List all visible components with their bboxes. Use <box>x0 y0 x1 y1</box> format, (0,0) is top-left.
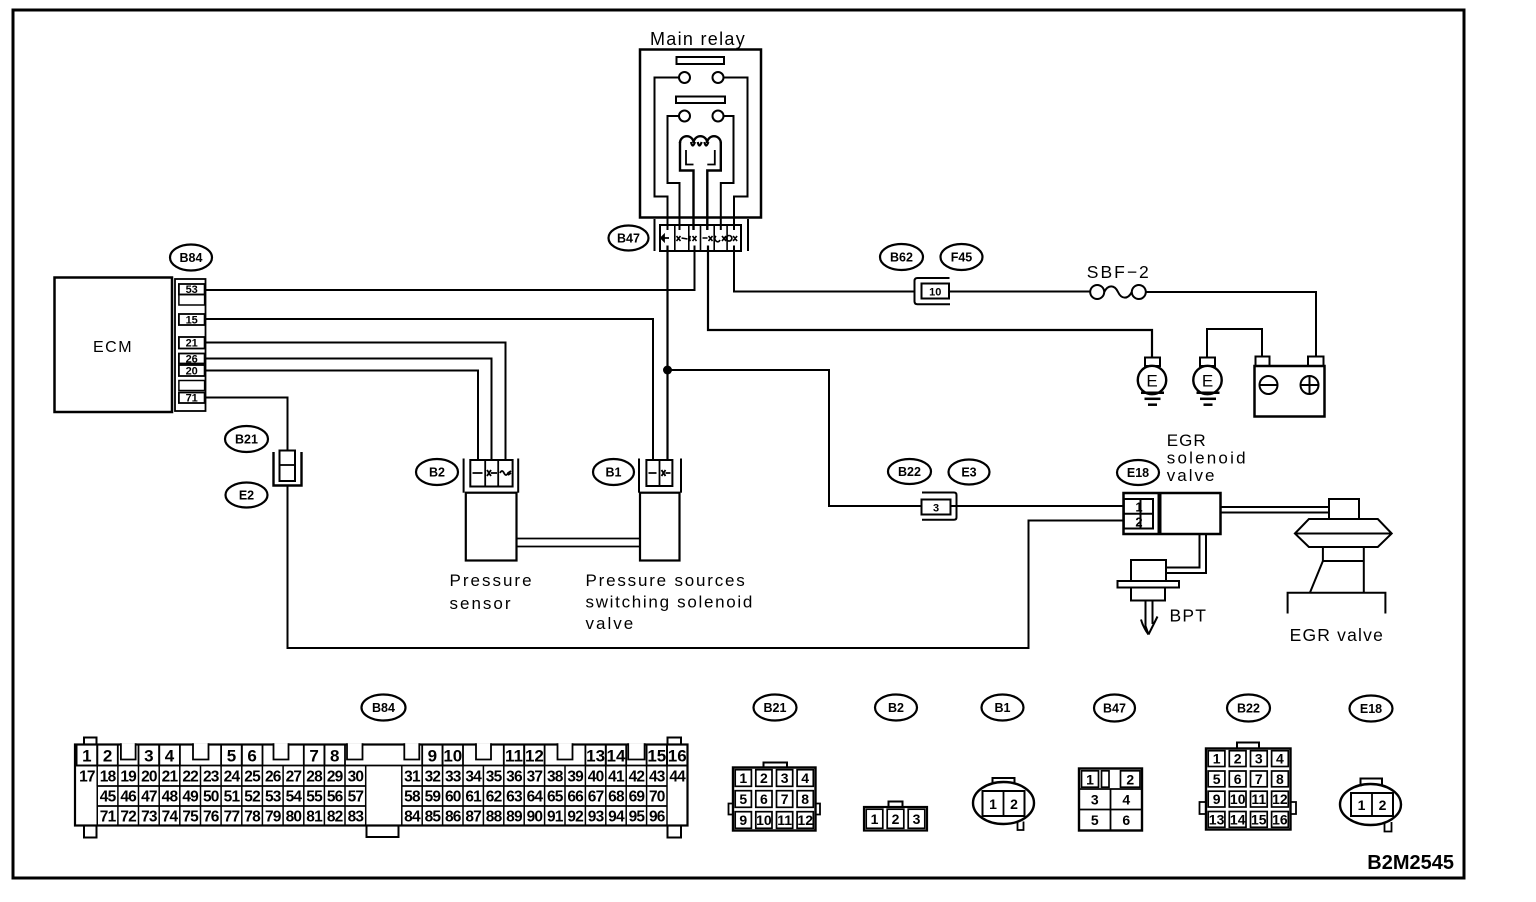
svg-text:6: 6 <box>1122 812 1130 828</box>
svg-text:EGR: EGR <box>1167 431 1207 450</box>
svg-text:75: 75 <box>182 809 199 826</box>
svg-text:B84: B84 <box>180 251 203 265</box>
svg-text:12: 12 <box>1272 791 1288 807</box>
svg-text:6: 6 <box>1234 771 1242 787</box>
svg-text:7: 7 <box>1255 771 1263 787</box>
ECM box <box>55 278 173 413</box>
connector B1 bracket <box>639 459 681 493</box>
svg-text:92: 92 <box>567 809 583 826</box>
svg-text:switching solenoid: switching solenoid <box>586 593 755 612</box>
connector label B2 <box>416 459 458 485</box>
svg-text:2: 2 <box>1234 751 1242 767</box>
svg-text:33: 33 <box>445 769 462 786</box>
svg-text:45: 45 <box>100 789 117 806</box>
svg-text:17: 17 <box>79 769 95 786</box>
svg-text:91: 91 <box>547 809 564 826</box>
connector B21/E2 symbol <box>274 451 302 486</box>
svg-text:84: 84 <box>404 809 421 826</box>
svg-text:8: 8 <box>330 747 339 766</box>
svg-text:1: 1 <box>82 747 91 766</box>
svg-text:73: 73 <box>141 809 158 826</box>
svg-text:EGR valve: EGR valve <box>1290 625 1384 645</box>
svg-text:62: 62 <box>486 789 502 806</box>
svg-text:57: 57 <box>348 789 364 806</box>
EGR solenoid valve body with connector E18 <box>1124 493 1221 534</box>
svg-text:3: 3 <box>1091 791 1099 807</box>
pressure sensor label <box>450 571 534 613</box>
svg-text:B22: B22 <box>1237 702 1260 716</box>
svg-text:4: 4 <box>1276 751 1284 767</box>
svg-text:valve: valve <box>586 614 636 633</box>
svg-text:86: 86 <box>445 809 462 826</box>
wire B22/E3 to EGR solenoid valve pin1 <box>951 505 1124 507</box>
svg-text:63: 63 <box>506 789 523 806</box>
svg-text:10: 10 <box>1230 791 1246 807</box>
ECM pin 53 <box>179 284 205 296</box>
svg-text:13: 13 <box>586 747 605 766</box>
EGR valve symbol <box>1288 499 1392 614</box>
svg-text:64: 64 <box>527 789 544 806</box>
ground E (left) <box>1138 358 1166 405</box>
svg-text:71: 71 <box>100 809 117 826</box>
svg-text:B62: B62 <box>890 251 913 265</box>
svg-text:26: 26 <box>265 769 282 786</box>
relay coil <box>680 136 721 230</box>
pipe EGR solenoid valve to EGR valve <box>1221 507 1330 513</box>
svg-text:9: 9 <box>428 747 437 766</box>
svg-text:2: 2 <box>760 770 768 786</box>
ECM pin 20 <box>179 365 205 377</box>
wire ECM 20 to B2 pin1 <box>206 371 478 461</box>
svg-text:16: 16 <box>668 747 687 766</box>
EGR solenoid valve label <box>1167 431 1248 485</box>
BPT device <box>1118 560 1180 635</box>
svg-text:68: 68 <box>608 789 625 806</box>
svg-text:42: 42 <box>629 769 645 786</box>
svg-text:B84: B84 <box>372 701 395 715</box>
svg-text:85: 85 <box>425 809 442 826</box>
svg-text:46: 46 <box>120 789 137 806</box>
connector label B21 <box>225 426 268 452</box>
svg-text:solenoid: solenoid <box>1167 449 1248 468</box>
svg-text:31: 31 <box>404 769 421 786</box>
connector label B62 <box>880 244 923 270</box>
connector label E2 <box>226 483 268 508</box>
svg-text:9: 9 <box>739 812 747 828</box>
connector B47 side bracket left <box>654 219 656 251</box>
svg-text:88: 88 <box>486 809 503 826</box>
svg-text:90: 90 <box>527 809 543 826</box>
svg-text:47: 47 <box>141 789 157 806</box>
connector B2 pin marks <box>473 470 512 476</box>
svg-text:3: 3 <box>913 811 921 827</box>
svg-text:72: 72 <box>120 809 136 826</box>
svg-text:67: 67 <box>588 789 604 806</box>
svg-text:4: 4 <box>165 747 175 766</box>
svg-text:1: 1 <box>739 770 747 786</box>
svg-text:11: 11 <box>777 812 792 828</box>
svg-text:36: 36 <box>506 769 523 786</box>
svg-text:15: 15 <box>1251 811 1267 827</box>
svg-text:89: 89 <box>506 809 523 826</box>
svg-text:70: 70 <box>649 789 665 806</box>
ECM connector pin column <box>175 279 206 411</box>
connector B2 pinout (3 pin) <box>864 802 927 831</box>
svg-text:1: 1 <box>989 796 997 812</box>
svg-text:10: 10 <box>443 747 462 766</box>
ground E (right) <box>1193 358 1221 405</box>
svg-text:E: E <box>1146 372 1157 391</box>
svg-text:B21: B21 <box>764 701 787 715</box>
svg-text:28: 28 <box>306 769 323 786</box>
connector label B1 pinout label <box>982 695 1024 721</box>
svg-text:76: 76 <box>203 809 220 826</box>
svg-text:59: 59 <box>425 789 442 806</box>
wire fuse 10 to SBF-2 <box>950 291 1090 293</box>
svg-text:Main relay: Main relay <box>650 29 746 49</box>
connector label F45 <box>941 244 983 270</box>
svg-text:83: 83 <box>348 809 365 826</box>
connector B47 side bracket right <box>747 219 749 251</box>
wire ground E (right) to battery negative <box>1207 329 1262 358</box>
svg-text:30: 30 <box>348 769 364 786</box>
connector B84 pinout body <box>75 738 688 838</box>
connector label E3 <box>949 460 990 485</box>
relay contact terminal circles row 2 <box>679 111 724 122</box>
svg-text:Pressure sources: Pressure sources <box>586 571 747 590</box>
svg-text:B2: B2 <box>429 466 445 480</box>
wire relay contact2 left to B47 pin <box>668 116 680 230</box>
svg-text:12: 12 <box>525 747 544 766</box>
svg-text:3: 3 <box>1255 751 1263 767</box>
svg-text:74: 74 <box>162 809 179 826</box>
ECM pin 15 <box>179 314 205 326</box>
connector label B21 pinout label <box>754 695 797 721</box>
svg-text:21: 21 <box>162 769 179 786</box>
svg-text:B47: B47 <box>617 232 640 246</box>
svg-text:93: 93 <box>588 809 605 826</box>
svg-text:23: 23 <box>203 769 220 786</box>
wire ECM 71 to connector B21/E2 <box>206 398 288 452</box>
svg-text:26: 26 <box>186 353 198 365</box>
svg-text:5: 5 <box>227 747 236 766</box>
svg-text:B2: B2 <box>888 701 904 715</box>
connector B47 body <box>660 225 741 251</box>
svg-text:10: 10 <box>929 286 941 298</box>
svg-text:15: 15 <box>186 314 198 326</box>
svg-text:E3: E3 <box>961 466 976 480</box>
svg-text:87: 87 <box>465 809 481 826</box>
svg-text:44: 44 <box>669 769 686 786</box>
wire B21/E2 to EGR solenoid valve pin2 (long bottom run) <box>288 486 1124 648</box>
svg-text:2: 2 <box>1135 515 1142 530</box>
connector B2 bracket <box>464 459 519 493</box>
svg-text:5: 5 <box>1091 812 1099 828</box>
connector label E18 <box>1117 460 1159 485</box>
svg-text:9: 9 <box>1213 791 1221 807</box>
link bar between sensor and valve bodies <box>517 539 641 547</box>
pipe EGR solenoid valve to BPT <box>1166 534 1206 573</box>
relay contact terminal circles row 1 <box>679 72 724 83</box>
svg-text:valve: valve <box>1167 466 1217 485</box>
svg-text:4: 4 <box>1122 791 1130 807</box>
wire B47 pin4 to ground E <box>708 246 1152 358</box>
svg-text:80: 80 <box>286 809 302 826</box>
svg-text:32: 32 <box>425 769 441 786</box>
svg-text:25: 25 <box>244 769 261 786</box>
connector label B47 <box>609 226 649 251</box>
svg-text:81: 81 <box>306 809 323 826</box>
svg-text:ECM: ECM <box>93 339 133 356</box>
svg-text:12: 12 <box>797 812 813 828</box>
connector E18 pinout (oval 2 pin) <box>1340 779 1401 832</box>
svg-text:B21: B21 <box>235 433 258 447</box>
svg-text:E2: E2 <box>239 489 254 503</box>
svg-text:38: 38 <box>547 769 564 786</box>
svg-text:22: 22 <box>182 769 198 786</box>
wire junction to connector B22/E3 <box>668 370 922 506</box>
svg-text:35: 35 <box>486 769 503 786</box>
svg-text:39: 39 <box>567 769 584 786</box>
connector B47 pinout (6 pin) <box>1079 769 1142 831</box>
connector B1 pin marks <box>649 470 671 476</box>
connector B2 pin box <box>470 460 512 487</box>
fuse holder box 10 <box>915 278 951 304</box>
wire ECM 26 to B2 pin2 <box>206 359 492 461</box>
svg-text:15: 15 <box>647 747 666 766</box>
wire relay contact2 right to B47 pin <box>721 116 734 230</box>
connector label B22 pinout label <box>1227 695 1270 722</box>
svg-text:40: 40 <box>588 769 604 786</box>
ECM pin 21 <box>179 337 205 350</box>
connector B22/E3 symbol with pin 3 <box>922 493 957 520</box>
connector label B47 pinout label <box>1094 695 1135 722</box>
ECM pin 26 <box>179 353 205 365</box>
wire B47 pin6 to fuse 10 <box>734 246 915 292</box>
connector B1 pin box <box>646 460 672 486</box>
svg-text:11: 11 <box>1251 791 1266 807</box>
junction node at relay output <box>663 366 672 375</box>
svg-text:10: 10 <box>756 812 772 828</box>
connector B84 row1 pins 1-16 <box>77 743 688 765</box>
svg-text:48: 48 <box>162 789 179 806</box>
connector label B84 pinout label <box>362 695 406 721</box>
svg-text:71: 71 <box>186 393 198 405</box>
svg-text:2: 2 <box>892 811 900 827</box>
svg-text:7: 7 <box>781 791 789 807</box>
svg-text:5: 5 <box>1213 771 1221 787</box>
relay contact bar 1 <box>677 57 725 64</box>
main relay box <box>640 50 761 218</box>
svg-text:79: 79 <box>265 809 282 826</box>
connector B21 pinout (12 pin) <box>729 763 821 831</box>
svg-text:37: 37 <box>527 769 543 786</box>
svg-text:1: 1 <box>871 811 879 827</box>
svg-text:95: 95 <box>629 809 646 826</box>
connector label B1 <box>593 459 634 485</box>
connector label B2 pinout label <box>875 695 917 721</box>
svg-text:B1: B1 <box>606 466 622 480</box>
connector label B22 <box>888 459 931 484</box>
switching solenoid valve label <box>586 571 755 633</box>
svg-text:24: 24 <box>224 769 241 786</box>
svg-text:14: 14 <box>607 747 626 766</box>
svg-text:19: 19 <box>120 769 137 786</box>
svg-text:1: 1 <box>1135 500 1142 515</box>
svg-text:B2M2545: B2M2545 <box>1367 852 1454 874</box>
svg-text:96: 96 <box>649 809 666 826</box>
svg-text:3: 3 <box>144 747 153 766</box>
svg-text:29: 29 <box>327 769 344 786</box>
wire relay contact1 left to B47 pin <box>655 78 680 231</box>
svg-text:1: 1 <box>1213 751 1221 767</box>
wire SBF-2 to battery positive <box>1146 292 1316 357</box>
svg-text:1: 1 <box>1358 797 1366 813</box>
battery <box>1255 357 1325 417</box>
svg-text:51: 51 <box>224 789 241 806</box>
svg-text:SBF−2: SBF−2 <box>1087 262 1151 282</box>
svg-text:B1: B1 <box>995 701 1011 715</box>
fusible link SBF-2 <box>1090 285 1146 299</box>
pressure sensor body <box>466 493 517 561</box>
svg-text:82: 82 <box>327 809 343 826</box>
svg-text:61: 61 <box>465 789 482 806</box>
svg-text:13: 13 <box>1209 811 1225 827</box>
wire relay contact1 right to B47 pin <box>724 78 748 231</box>
svg-text:66: 66 <box>567 789 584 806</box>
svg-text:2: 2 <box>1126 771 1134 787</box>
svg-text:49: 49 <box>182 789 199 806</box>
svg-text:E18: E18 <box>1360 702 1382 716</box>
svg-text:20: 20 <box>186 365 198 377</box>
svg-text:2: 2 <box>1379 797 1387 813</box>
svg-text:11: 11 <box>505 747 523 766</box>
svg-text:16: 16 <box>1272 811 1288 827</box>
svg-text:65: 65 <box>547 789 564 806</box>
svg-text:78: 78 <box>244 809 261 826</box>
svg-text:6: 6 <box>247 747 256 766</box>
svg-text:55: 55 <box>306 789 323 806</box>
svg-text:B47: B47 <box>1103 702 1126 716</box>
svg-text:43: 43 <box>649 769 666 786</box>
wire B47 pin1 to solenoid valve B1 pin2 (with junction) <box>666 246 668 461</box>
svg-text:56: 56 <box>327 789 344 806</box>
svg-text:50: 50 <box>203 789 219 806</box>
svg-text:41: 41 <box>608 769 625 786</box>
relay contact bar 2 <box>676 97 725 104</box>
connector label E18 pinout label <box>1350 696 1393 722</box>
svg-text:8: 8 <box>1276 771 1284 787</box>
connector E18 pin box (pins 1,2) <box>1124 499 1153 530</box>
svg-text:3: 3 <box>933 502 939 514</box>
connector B84 pins 17-96 <box>79 769 686 826</box>
svg-text:21: 21 <box>186 338 198 350</box>
svg-text:14: 14 <box>1230 811 1246 827</box>
svg-text:2: 2 <box>1010 796 1018 812</box>
svg-text:8: 8 <box>801 791 809 807</box>
svg-text:52: 52 <box>244 789 260 806</box>
svg-text:58: 58 <box>404 789 421 806</box>
svg-text:27: 27 <box>286 769 302 786</box>
empty pin slots <box>179 295 205 391</box>
svg-text:5: 5 <box>739 791 747 807</box>
svg-text:7: 7 <box>309 747 318 766</box>
svg-text:B22: B22 <box>898 465 921 479</box>
connector B47 pin marks <box>661 235 737 242</box>
svg-text:2: 2 <box>103 747 112 766</box>
ECM pin 71 <box>179 393 205 405</box>
svg-text:sensor: sensor <box>450 594 513 613</box>
svg-text:6: 6 <box>760 791 768 807</box>
svg-text:53: 53 <box>265 789 282 806</box>
svg-text:F45: F45 <box>951 251 973 265</box>
svg-text:94: 94 <box>608 809 625 826</box>
svg-text:3: 3 <box>781 770 789 786</box>
svg-text:BPT: BPT <box>1170 606 1208 626</box>
svg-text:69: 69 <box>629 789 646 806</box>
wire ECM 15 to B1 pin1 <box>206 319 653 460</box>
svg-text:18: 18 <box>100 769 117 786</box>
svg-text:Pressure: Pressure <box>450 571 534 590</box>
svg-text:54: 54 <box>286 789 303 806</box>
svg-text:1: 1 <box>1086 771 1094 787</box>
connector B22 pinout (16 pin) <box>1200 743 1297 830</box>
svg-text:E18: E18 <box>1127 466 1149 480</box>
svg-text:34: 34 <box>465 769 482 786</box>
connector label B84 (ECM connector) <box>170 245 212 271</box>
svg-text:4: 4 <box>801 770 809 786</box>
wire B47 pin3 to ECM pin 53 <box>206 246 695 291</box>
svg-text:60: 60 <box>445 789 461 806</box>
svg-text:77: 77 <box>224 809 240 826</box>
svg-text:20: 20 <box>141 769 157 786</box>
switching solenoid valve body <box>640 493 680 561</box>
connector B1 pinout (oval 2 pin) <box>973 778 1034 830</box>
svg-text:E: E <box>1202 372 1213 391</box>
wire ECM 21 to B2 pin3 <box>206 343 506 461</box>
